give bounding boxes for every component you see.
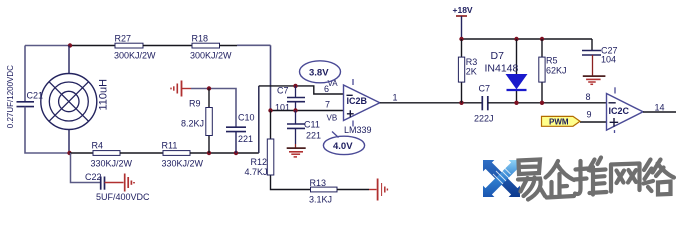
node dot top rail / inductor bbox=[68, 43, 72, 47]
wire pin9 bbox=[580, 121, 607, 123]
resistor R27 bbox=[114, 34, 156, 61]
wire VA ground rail (purple) bbox=[191, 89, 236, 128]
resistor R5 bbox=[539, 56, 567, 83]
wire R4 to R11 bbox=[120, 152, 163, 154]
svg-text:8.2KJ: 8.2KJ bbox=[181, 119, 204, 129]
svg-text:R3: R3 bbox=[466, 57, 478, 67]
wire left vertical upper (purple) bbox=[24, 46, 26, 102]
node dot pin7/x270 bbox=[268, 108, 272, 112]
diode D7 bbox=[485, 39, 527, 103]
svg-text:62KJ: 62KJ bbox=[546, 66, 567, 76]
node dot R5 bottom bbox=[540, 101, 544, 105]
watermark logo bbox=[483, 160, 520, 197]
svg-text:R12: R12 bbox=[251, 157, 268, 167]
wire R27 to R18 bbox=[143, 45, 192, 47]
wire left vertical lower (purple) bbox=[25, 107, 70, 153]
wire VA horizontal to pin6 bbox=[259, 86, 344, 94]
resistor R18 bbox=[190, 34, 232, 61]
node dot R9 top bbox=[207, 86, 211, 90]
svg-text:300KJ/2W: 300KJ/2W bbox=[190, 51, 232, 61]
ground left-pointing (VA rail) bbox=[171, 81, 182, 97]
svg-text:C11: C11 bbox=[304, 120, 320, 130]
node dot R5 top bbox=[540, 37, 544, 41]
wire bottom rail to R4 bbox=[70, 152, 94, 154]
svg-text:IN4148: IN4148 bbox=[485, 63, 519, 75]
svg-text:8: 8 bbox=[586, 92, 591, 102]
wire red lead bbox=[369, 189, 377, 191]
svg-text:9: 9 bbox=[587, 110, 592, 120]
resistor R12 bbox=[245, 139, 274, 177]
annotation 3.8V bbox=[300, 61, 341, 83]
char tui bbox=[575, 158, 607, 195]
svg-text:C7: C7 bbox=[479, 84, 491, 94]
wire R11 to corner x259 bbox=[190, 152, 259, 154]
wire top rail left (purple) bbox=[25, 45, 70, 47]
svg-text:+18V: +18V bbox=[453, 5, 473, 15]
char wang bbox=[611, 164, 640, 192]
capacitor C22 branch wire bbox=[71, 153, 101, 183]
ground right-pointing at R13 bbox=[378, 179, 388, 201]
annotation 4.0V bbox=[323, 132, 364, 155]
svg-text:222J: 222J bbox=[474, 114, 494, 124]
resistor R13 bbox=[309, 178, 337, 205]
svg-text:LM339: LM339 bbox=[344, 125, 372, 135]
wire C22 to ground (red) bbox=[105, 182, 124, 184]
resistor R9 bbox=[181, 99, 212, 136]
ground right-pointing at C22 bbox=[125, 174, 134, 192]
svg-text:R18: R18 bbox=[192, 34, 209, 44]
wire R13 to ground bbox=[337, 189, 369, 191]
svg-text:2K: 2K bbox=[466, 67, 477, 77]
ground down at C27 bbox=[583, 76, 606, 84]
resistor R4 bbox=[91, 141, 133, 169]
node dot C10 bottom bbox=[234, 151, 238, 155]
node dot R3 top bbox=[459, 37, 463, 41]
char qi bbox=[546, 161, 575, 198]
svg-text:4.0V: 4.0V bbox=[333, 141, 353, 152]
svg-text:C7: C7 bbox=[277, 86, 289, 96]
svg-text:104: 104 bbox=[601, 55, 616, 65]
svg-text:C22: C22 bbox=[85, 172, 102, 182]
resistor R3 leads bbox=[461, 39, 463, 103]
wire R18 right bbox=[220, 45, 238, 47]
svg-text:5UF/400VDC: 5UF/400VDC bbox=[96, 192, 150, 202]
svg-text:R27: R27 bbox=[115, 34, 132, 44]
svg-text:R13: R13 bbox=[310, 178, 327, 188]
capacitor C11 bbox=[287, 111, 321, 145]
node dot pin7/C11 bbox=[293, 108, 297, 112]
svg-text:3.8V: 3.8V bbox=[309, 68, 329, 79]
inductor L 110uH bbox=[41, 74, 110, 130]
node dot bottom rail left bbox=[67, 151, 71, 155]
svg-text:R4: R4 bbox=[92, 141, 104, 151]
svg-text:R5: R5 bbox=[546, 56, 558, 66]
wire vertical x270 down to pin7 net bbox=[270, 45, 272, 110]
capacitor C10 bbox=[226, 113, 255, 154]
inductor bottom lead bbox=[68, 130, 70, 154]
resistor R12 leads bbox=[271, 111, 311, 190]
svg-text:VB: VB bbox=[327, 114, 338, 123]
wire pin8 rail bbox=[488, 102, 607, 104]
wire pin7 net bbox=[271, 110, 344, 112]
inductor L 110uH top lead bbox=[68, 46, 70, 74]
char luo bbox=[644, 160, 675, 195]
watermark text bbox=[518, 158, 674, 200]
capacitor C7 (222J) bbox=[474, 84, 494, 124]
op-amp IC2B bbox=[344, 79, 380, 135]
svg-text:110uH: 110uH bbox=[98, 79, 110, 111]
resistor R9 leads bbox=[208, 89, 210, 154]
resistor R5 leads bbox=[541, 39, 543, 103]
svg-text:C10: C10 bbox=[238, 113, 255, 123]
wire vertical x259 up to VA wire bbox=[258, 86, 260, 153]
ground red lead bbox=[182, 88, 191, 90]
resistor R11 bbox=[162, 141, 204, 169]
svg-text:330KJ/2W: 330KJ/2W bbox=[91, 159, 133, 169]
svg-text:7: 7 bbox=[325, 100, 330, 110]
wire top rail to R27 bbox=[70, 45, 115, 47]
svg-text:R9: R9 bbox=[189, 99, 201, 109]
node dot D7 top bbox=[514, 37, 518, 41]
svg-text:3.1KJ: 3.1KJ bbox=[309, 195, 332, 205]
node dot R3 bottom bbox=[459, 101, 463, 105]
svg-text:0.27UF/1200VDC: 0.27UF/1200VDC bbox=[6, 65, 15, 128]
wire IC2B out to C7 bbox=[380, 102, 482, 104]
svg-text:1: 1 bbox=[393, 93, 398, 103]
capacitor C7 (101) bbox=[275, 86, 305, 113]
svg-text:R11: R11 bbox=[162, 141, 178, 151]
capacitor C21 bbox=[6, 65, 43, 128]
capacitor C22 bbox=[85, 172, 150, 202]
node dot C7 top bbox=[293, 84, 297, 88]
PWM flag bbox=[542, 116, 581, 126]
svg-text:330KJ/2W: 330KJ/2W bbox=[162, 159, 204, 169]
char yi bbox=[518, 160, 545, 200]
ground down at C11 bbox=[287, 144, 306, 157]
capacitor C27 bbox=[582, 39, 618, 76]
op-amp IC2C bbox=[607, 87, 644, 133]
svg-text:14: 14 bbox=[655, 103, 665, 113]
wire output 14 bbox=[643, 111, 676, 113]
node dot D7 bottom bbox=[514, 101, 518, 105]
wire +18V rail bbox=[462, 38, 593, 40]
svg-text:300KJ/2W: 300KJ/2W bbox=[114, 51, 156, 61]
svg-text:221: 221 bbox=[306, 131, 321, 141]
svg-text:PWM: PWM bbox=[549, 118, 569, 127]
node dot R9 bottom bbox=[207, 151, 211, 155]
svg-text:221: 221 bbox=[238, 134, 253, 144]
svg-text:4.7KJ: 4.7KJ bbox=[245, 167, 268, 177]
wire to corner (purple) bbox=[237, 44, 271, 46]
svg-text:IC2C: IC2C bbox=[609, 106, 630, 116]
resistor R3 bbox=[458, 57, 477, 82]
power +18V bbox=[453, 5, 473, 39]
svg-text:D7: D7 bbox=[491, 50, 505, 62]
svg-text:IC2B: IC2B bbox=[347, 96, 368, 106]
